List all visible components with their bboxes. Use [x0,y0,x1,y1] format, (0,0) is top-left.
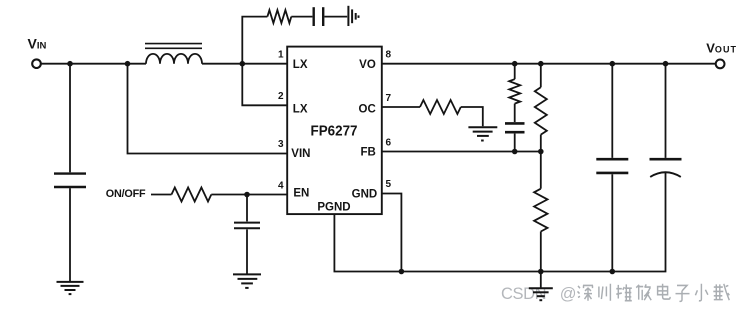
watermark faux hanzi 欣 [636,284,651,300]
wire inductor to pin 1 [202,63,287,65]
ground input [57,282,84,294]
svg-text:4: 4 [278,180,284,191]
svg-text:PGND: PGND [317,201,350,213]
junction EN node [244,192,250,198]
inductor L1 [146,54,202,64]
watermark faux hanzi 子 [676,285,690,301]
svg-text:LX: LX [293,59,308,71]
capacitor C6 output polarized [650,158,682,161]
wire C6 top lead [665,64,667,158]
svg-text:FB: FB [360,146,375,158]
junction C5 rail [610,269,616,275]
svg-text:EN: EN [293,187,309,199]
svg-text:GND: GND [352,188,378,200]
wire R5 to FB [540,135,542,189]
svg-text:@: @ [560,285,576,303]
wire R3 to EN pin 4 [211,194,287,196]
wire R4 to C4 [514,104,516,122]
watermark faux hanzi 戴 [713,284,729,300]
svg-text:8: 8 [386,49,392,60]
svg-text:7: 7 [386,93,392,104]
capacitor C5 output [596,159,628,173]
junction feedforward top [512,61,518,67]
node VIN input terminal [32,59,41,68]
capacitor C3 enable [234,223,260,229]
watermark faux hanzi 小 [695,284,708,301]
inductor core lines [145,44,202,49]
wire ON/OFF to R3 [151,194,172,196]
wire C5 top lead [611,64,613,158]
pin numbers [278,49,392,191]
wire EN cap top lead [246,195,248,222]
U1 labels [291,59,377,213]
watermark faux hanzi 雅 [616,284,632,300]
junction LX node [240,61,246,67]
junction input cap node [67,61,73,67]
watermark faux hanzi 电 [658,284,671,299]
ground snubber rotated [348,6,358,26]
wire EN cap bottom lead [246,229,248,274]
ground enable [233,274,261,288]
wire rail ground stub [540,272,542,288]
wire PGND down and ground rail [334,172,665,271]
wire input cap bottom lead [69,188,71,281]
capacitor C6 curved plate [650,172,681,177]
node VOUT output terminal [716,60,725,69]
resistor R3 enable [172,188,212,202]
wire C1 to ground [324,16,347,18]
wire to LX pin 2 [242,64,287,106]
svg-text:LX: LX [293,103,308,115]
svg-text:5: 5 [386,179,392,190]
ground OC [468,127,497,140]
svg-text:FP6277: FP6277 [311,122,358,139]
wire to VIN pin 3 [128,64,288,154]
watermark faux hanzi 深 [578,285,594,300]
wire VO rail pin 8 [382,63,716,65]
wire C4 to FB [514,134,516,152]
wire input cap top lead [69,64,71,173]
junction pin5 rail [399,269,405,275]
resistor R1 snubber [267,10,291,23]
svg-text:VIN: VIN [291,148,310,160]
wire GND pin 5 [382,194,402,272]
junction VIN pin node [125,61,131,67]
capacitor C2 input [54,174,86,187]
svg-text:2: 2 [278,91,284,102]
ground rail [529,288,553,300]
wire VIN to inductor [41,63,146,65]
wire OC pin 7 to R2 [382,106,420,108]
junction R5 FB [538,149,544,155]
op-amp U1 FP6277 box [287,47,382,215]
resistor R5 feedback upper [535,87,547,134]
wire R2 to ground [461,107,483,126]
wire snubber riser [242,17,267,64]
watermark faux hanzi 圳 [599,284,611,301]
wire C5 bottom lead [611,174,613,271]
junction C5 top [610,61,616,67]
capacitor C1 snubber [314,7,324,26]
svg-text:OC: OC [359,103,376,115]
wire R6 to rail [540,232,542,272]
svg-text:VIN: VIN [28,36,47,52]
junction C4 FB [512,149,518,155]
svg-text:6: 6 [386,137,392,148]
resistor R2 OC [420,100,461,114]
wire FB pin 6 [382,151,541,153]
resistor R4 feedforward [509,79,520,103]
junction R6 rail [538,269,544,275]
svg-text:3: 3 [278,139,284,150]
junction R5 top [538,61,544,67]
junction C6 top [663,61,669,67]
capacitor C4 feedforward [505,123,525,132]
svg-text:1: 1 [278,49,284,60]
svg-text:ON/OFF: ON/OFF [106,188,146,200]
wire R1 to C1 [291,16,312,18]
wire to R4 [514,64,516,79]
svg-text:VOUT: VOUT [706,41,737,56]
resistor R6 feedback lower [534,189,547,232]
wire to R5 [540,64,542,88]
svg-text:VO: VO [359,59,376,71]
